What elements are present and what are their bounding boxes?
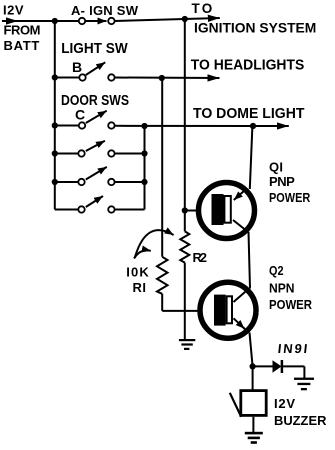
svg-text:IGNITION SYSTEM: IGNITION SYSTEM bbox=[194, 20, 316, 36]
svg-text:C: C bbox=[75, 107, 85, 123]
svg-text:TO DOME LIGHT: TO DOME LIGHT bbox=[193, 106, 305, 122]
svg-text:PNP: PNP bbox=[269, 174, 295, 189]
svg-text:R2: R2 bbox=[193, 250, 208, 265]
svg-text:FROM: FROM bbox=[4, 23, 41, 38]
svg-text:IN9I: IN9I bbox=[277, 341, 308, 356]
svg-text:LIGHT SW: LIGHT SW bbox=[61, 40, 128, 57]
svg-text:BATT: BATT bbox=[4, 38, 40, 53]
svg-text:NPN: NPN bbox=[269, 280, 295, 295]
svg-text:RI: RI bbox=[133, 280, 147, 295]
svg-text:BUZZER: BUZZER bbox=[274, 413, 327, 428]
svg-text:I0K: I0K bbox=[126, 264, 149, 279]
svg-text:I2V: I2V bbox=[274, 396, 295, 411]
svg-text:QI: QI bbox=[269, 159, 283, 174]
svg-text:A- IGN SW: A- IGN SW bbox=[71, 3, 139, 18]
svg-text:DOOR SWS: DOOR SWS bbox=[61, 93, 129, 109]
svg-text:TO HEADLIGHTS: TO HEADLIGHTS bbox=[191, 58, 305, 74]
svg-text:I2V: I2V bbox=[3, 3, 24, 18]
svg-text:POWER: POWER bbox=[269, 297, 313, 312]
svg-text:B: B bbox=[72, 59, 82, 75]
svg-text:Q2: Q2 bbox=[269, 263, 284, 278]
svg-text:TO: TO bbox=[192, 1, 213, 16]
svg-text:POWER: POWER bbox=[269, 190, 311, 205]
